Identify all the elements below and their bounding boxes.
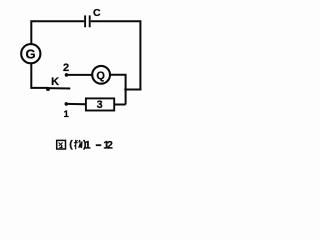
caption: 图 character (drawn): [57, 140, 66, 149]
wire top-left: from G up then right to capacitor: [31, 21, 84, 44]
caption: 物 character (drawn): [74, 140, 82, 150]
wire top-right: capacitor to top-right corner then down: [91, 21, 141, 89]
switch pole junction dot: [46, 87, 50, 91]
node 1 contact dot: [65, 102, 69, 106]
svg-text:3: 3: [97, 99, 103, 111]
wire below G down then right to switch pole: [31, 64, 48, 88]
svg-text:G: G: [26, 46, 36, 61]
svg-text:K: K: [51, 76, 59, 88]
meter Q: [92, 66, 110, 84]
wire resistor left lead: [66, 103, 86, 105]
svg-text:1: 1: [64, 109, 70, 120]
svg-text:1: 1: [84, 139, 90, 151]
svg-text:2: 2: [107, 139, 113, 151]
svg-text:Q: Q: [96, 70, 105, 82]
galvanometer G: [21, 44, 40, 63]
capacitor C: [85, 15, 90, 27]
wire node 2 to Q: [67, 74, 93, 76]
node 2 contact dot: [65, 73, 69, 77]
caption: dash: [96, 144, 102, 146]
svg-text:(: (: [69, 138, 73, 150]
resistor 3 box: [86, 98, 114, 110]
svg-text:C: C: [93, 7, 101, 19]
wire junction horizontal: [126, 89, 142, 91]
wire resistor right lead: [114, 104, 125, 106]
junction dot right: [124, 88, 127, 91]
wire Q right lead then down: [110, 75, 126, 105]
svg-text:2: 2: [63, 62, 69, 74]
switch K lever: [48, 87, 70, 89]
